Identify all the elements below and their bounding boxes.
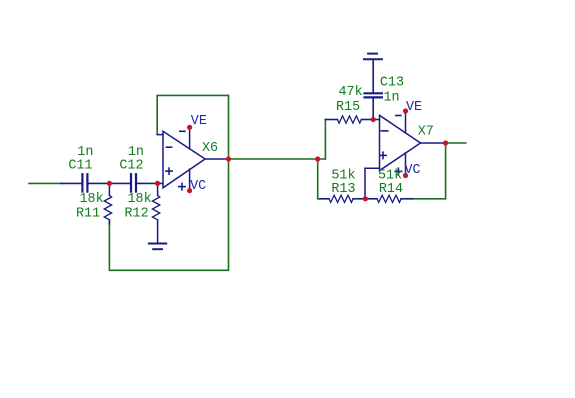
plus sign at X7 VC pin xyxy=(395,168,401,174)
svg-text:18k: 18k xyxy=(128,192,152,207)
capacitor C13 xyxy=(365,59,382,119)
resistor R12 xyxy=(152,183,159,243)
svg-text:X6: X6 xyxy=(202,141,218,156)
plus sign at X6 VC pin xyxy=(179,183,185,189)
svg-text:1n: 1n xyxy=(384,90,400,105)
wire node down to R13 xyxy=(318,159,320,199)
junction node X7 output xyxy=(443,140,448,145)
junction node stage2 input xyxy=(315,156,320,161)
wire X6 output to X7 node xyxy=(229,158,326,160)
inverted ground above C13 xyxy=(364,54,382,60)
junction node C11-R11 xyxy=(107,181,112,186)
op-amp X6 xyxy=(157,127,228,190)
junction node X7 VE xyxy=(403,108,408,113)
junction node X7 VC xyxy=(403,173,408,178)
svg-text:47k: 47k xyxy=(339,85,363,100)
resistor R13 xyxy=(320,195,365,202)
svg-text:18k: 18k xyxy=(80,192,104,207)
capacitor C12 xyxy=(109,174,163,191)
junction node X6 VE xyxy=(187,125,192,130)
junction node C12-R12 plus input xyxy=(155,181,160,186)
svg-text:R15: R15 xyxy=(336,100,360,115)
wire X6 feedback box top xyxy=(157,95,228,159)
minus sign inside X7 xyxy=(381,130,387,132)
svg-text:R13: R13 xyxy=(331,182,355,197)
ground under R12 xyxy=(149,244,166,250)
minus sign inside X6 xyxy=(166,146,171,148)
svg-text:R11: R11 xyxy=(76,207,100,222)
svg-text:C13: C13 xyxy=(380,76,404,91)
wire R14 to X7 output feedback xyxy=(413,143,446,199)
minus sign at X7 VE pin xyxy=(396,115,401,117)
svg-text:C12: C12 xyxy=(119,159,143,174)
plus sign inside X6 xyxy=(166,168,172,174)
junction node R13-R14 xyxy=(363,196,368,201)
op-amp X7 xyxy=(365,111,446,199)
capacitor C11 xyxy=(61,174,109,191)
junction node X6 output xyxy=(226,156,231,161)
svg-text:X7: X7 xyxy=(418,125,434,140)
minus sign at X6 VE pin xyxy=(180,130,185,132)
wire X6 feedback box bottom xyxy=(109,159,228,270)
svg-text:VE: VE xyxy=(406,100,422,115)
svg-text:VE: VE xyxy=(191,114,207,129)
wire X7 output xyxy=(446,142,466,144)
plus sign inside X7 xyxy=(380,152,386,158)
junction node X6 VC xyxy=(187,188,192,193)
wire input to C11 xyxy=(29,182,61,184)
resistor R11 xyxy=(104,183,111,224)
wire node up to R15 xyxy=(324,120,326,160)
svg-text:C11: C11 xyxy=(68,159,92,174)
svg-text:VC: VC xyxy=(405,163,421,178)
resistor R14 xyxy=(365,195,413,202)
svg-text:VC: VC xyxy=(190,179,206,194)
junction node R15-C13 minus input xyxy=(371,117,376,122)
svg-text:R12: R12 xyxy=(125,207,149,222)
resistor R15 xyxy=(325,116,373,123)
svg-text:R14: R14 xyxy=(379,182,403,197)
